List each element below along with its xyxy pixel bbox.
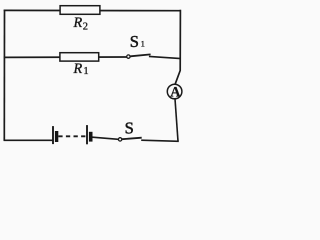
switch S1: blade	[130, 54, 150, 56]
wire: top horizontal	[4, 9, 181, 11]
switch S: blade	[122, 138, 142, 140]
resistor R2 (box)	[60, 6, 100, 15]
wire: battery to switch S	[92, 137, 118, 139]
svg-text:1: 1	[83, 66, 88, 77]
battery: left cell long plate (+)	[52, 126, 54, 144]
wire: switch S to bottom right corner	[141, 140, 179, 141]
svg-text:S: S	[130, 32, 139, 51]
wire: left vertical	[3, 10, 5, 141]
wire: middle horizontal	[4, 56, 127, 58]
svg-text:S: S	[125, 118, 134, 137]
wire: right vertical (top to ammeter)	[175, 10, 181, 85]
svg-text:A: A	[170, 84, 181, 100]
svg-text:2: 2	[83, 21, 88, 32]
svg-text:1: 1	[141, 38, 145, 48]
ammeter A (circle)	[167, 84, 182, 99]
battery: dashed link between cells	[58, 135, 86, 137]
battery: right cell long plate (+)	[86, 125, 88, 144]
resistor R1 (box)	[60, 53, 99, 61]
wire: bottom left (to battery)	[4, 139, 53, 141]
svg-text:R: R	[73, 61, 83, 77]
battery: right cell short thick plate (-)	[89, 132, 93, 142]
wire: S1 to right vertical	[149, 56, 181, 58]
switch S1: pivot circle	[127, 55, 130, 58]
wire: ammeter to bottom wire	[175, 99, 178, 141]
switch S: pivot circle	[118, 138, 121, 141]
svg-text:R: R	[73, 15, 83, 31]
battery: left cell short thick plate (-)	[55, 131, 58, 142]
